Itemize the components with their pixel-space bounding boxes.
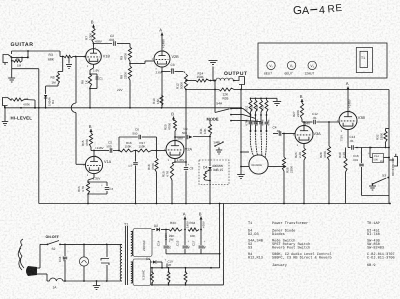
node — [210, 80, 215, 82]
ground — [8, 61, 15, 82]
wire ground link — [220, 204, 224, 269]
resistor bank R21-R24 — [249, 98, 269, 132]
label +94V — [305, 122, 311, 126]
resistor R34 10K — [188, 221, 199, 238]
wire — [209, 181, 211, 204]
capacitor C1 — [89, 73, 103, 88]
pilot lamp — [79, 244, 88, 281]
jack reverb out — [389, 154, 398, 166]
wire branch — [12, 68, 39, 70]
wire ground rail — [5, 107, 241, 109]
V1A cathode R16a — [77, 174, 100, 205]
node B — [199, 212, 206, 231]
wire C3 out — [162, 71, 171, 73]
resistor R3 68K — [64, 55, 73, 58]
wire — [282, 133, 295, 135]
transformer secondary 6.3VAC — [131, 259, 152, 286]
ground — [93, 281, 100, 290]
jack output contacts — [209, 78, 237, 81]
tube V2B — [152, 49, 170, 70]
tube V1B — [84, 47, 102, 68]
labels bank — [245, 105, 271, 126]
capacitor C17 40uf — [192, 230, 207, 254]
capacitor C4 .01 — [273, 126, 281, 136]
V3A cathode R26 — [294, 144, 306, 204]
wire — [89, 87, 91, 108]
resistor R8 220K — [120, 66, 132, 80]
resistor R25 220K — [282, 134, 293, 204]
capacitor C14a 20uf — [157, 230, 172, 254]
wire — [117, 80, 130, 108]
node A supply — [346, 81, 350, 95]
switch S4A — [214, 80, 232, 122]
capacitor C12 .01 — [304, 112, 318, 124]
wire bank top rail — [250, 98, 277, 100]
wire — [388, 90, 390, 148]
diode D4 limiter — [208, 160, 211, 181]
transformer secondary 230VAC — [131, 229, 153, 257]
label +148V — [348, 99, 352, 108]
node B supply — [171, 112, 175, 121]
wire — [20, 100, 36, 109]
wire — [91, 147, 95, 157]
label 2.6V — [156, 71, 163, 75]
tube socket V3 — [305, 61, 317, 75]
diode D2 — [154, 224, 168, 231]
label 1.6V — [93, 69, 100, 73]
wire — [11, 57, 13, 61]
wire plate to C2 — [93, 43, 112, 45]
wire — [11, 51, 29, 58]
wire — [75, 56, 86, 164]
wire — [174, 131, 176, 141]
label D4 400MW — [203, 164, 223, 172]
capacitor C5 500 — [107, 141, 113, 153]
parts list — [248, 221, 395, 268]
wire — [37, 244, 47, 268]
resistor R5 1M — [51, 73, 60, 85]
switch S2 ON-OFF — [46, 235, 61, 251]
ground — [369, 184, 376, 190]
capacitor C9 500uf — [175, 127, 193, 139]
wire — [362, 148, 390, 204]
resistor R20 470K — [164, 121, 177, 132]
wire reverb out line — [355, 147, 390, 149]
ground — [2, 106, 8, 126]
tube V2A — [164, 139, 184, 162]
capacitor C15 40uf — [176, 230, 191, 254]
transformer T1 primary — [120, 223, 128, 282]
wire reverb return — [241, 88, 389, 90]
label GUITAR — [11, 42, 34, 48]
capacitor C4a bypass — [88, 182, 114, 194]
tube socket V2 — [285, 61, 296, 75]
plug AC — [18, 239, 37, 276]
resistor R33 22K 5W — [169, 221, 182, 241]
resistor R18 470K — [147, 151, 158, 204]
tube V3A — [293, 124, 313, 147]
wire cathode — [174, 158, 184, 163]
wire grid V2B — [130, 61, 154, 64]
label REVERB OUT — [391, 157, 395, 176]
resistor R15 470K — [81, 133, 93, 147]
diode D1 — [146, 257, 173, 269]
resistor R16 150K — [120, 141, 135, 152]
label V2B — [172, 55, 180, 59]
wire — [240, 90, 249, 175]
heater V2 — [167, 268, 170, 285]
wire — [58, 56, 64, 73]
node hook V1A grid tap — [71, 103, 76, 113]
reverb tank — [249, 155, 268, 174]
capacitor C2 .001 — [109, 34, 116, 46]
wire — [117, 44, 130, 48]
wire C9 line — [193, 136, 211, 138]
wire left vertical — [38, 69, 40, 204]
node A supply — [159, 28, 163, 39]
chassis box — [258, 43, 387, 78]
node junction — [129, 61, 131, 66]
resistor R9 470K — [120, 47, 132, 61]
resistor R10 15K — [152, 95, 163, 106]
tube V1A — [83, 155, 102, 178]
resistor R2 470K — [11, 97, 30, 107]
wire — [268, 166, 285, 168]
wire cathode — [340, 130, 349, 148]
resistor R31 10K — [199, 120, 212, 137]
box limiter dashed — [199, 160, 229, 185]
transformer T1 core — [125, 226, 127, 285]
capacitor C14 500uf — [368, 147, 390, 163]
switch S3 — [372, 174, 390, 185]
wire — [90, 64, 94, 74]
resistor R35 12K — [219, 88, 234, 101]
wire B+ rail — [153, 229, 155, 231]
label V1B — [103, 55, 111, 59]
label +116V — [95, 146, 104, 150]
ground — [66, 57, 72, 69]
wire cathode — [161, 67, 163, 108]
node B supply — [300, 94, 304, 103]
resistor R19 4.7K — [162, 162, 176, 204]
resistor R27 220K — [292, 103, 304, 119]
capacitor C18 .047 — [58, 244, 67, 281]
resistor R7 100K — [85, 28, 96, 43]
ground output — [209, 61, 218, 81]
wire — [317, 121, 340, 123]
label V3B — [358, 116, 366, 120]
label 58V — [178, 137, 183, 141]
node — [165, 229, 169, 231]
wire — [166, 253, 221, 255]
wire — [347, 95, 349, 112]
tube socket V1 — [264, 61, 275, 75]
jack J2 hi-level input — [3, 98, 12, 109]
ground — [216, 150, 222, 154]
wire — [37, 274, 47, 281]
node — [134, 150, 137, 152]
node B supply — [89, 124, 93, 133]
capacitor C6 bridge — [119, 128, 157, 151]
label V3A — [314, 132, 322, 136]
resistor R14 150K — [196, 72, 209, 83]
resistor R1 1M — [12, 57, 23, 68]
zigzag in box — [204, 170, 210, 181]
resistor R17 150K — [137, 141, 152, 152]
jack output — [237, 77, 245, 89]
tube V3B — [337, 110, 357, 133]
wire heater bottom — [151, 268, 224, 286]
potentiometer R12 500K — [176, 74, 188, 90]
wire — [12, 50, 61, 56]
wire — [185, 89, 242, 162]
ground — [273, 98, 281, 105]
label +148V — [162, 38, 166, 48]
capacitor C13 .01 — [348, 135, 355, 150]
label HI-LEVEL — [11, 116, 33, 121]
switch S4B — [214, 141, 224, 151]
wire — [73, 56, 86, 58]
wire — [60, 244, 120, 246]
node B supply — [91, 20, 95, 29]
label +68V — [95, 40, 103, 44]
wire — [46, 84, 58, 94]
label V2A — [185, 148, 193, 152]
heater V3 — [184, 268, 187, 285]
jack J1 guitar input — [3, 55, 12, 66]
cable to reverb dashed — [250, 131, 266, 157]
resistor R28 470K — [319, 122, 331, 204]
node — [152, 150, 167, 152]
capacitor C8 — [175, 161, 194, 203]
capacitor C7 — [129, 151, 138, 204]
label MODE — [207, 117, 219, 122]
wire — [113, 150, 120, 152]
heater V1 — [151, 268, 154, 285]
capacitor line filter — [101, 244, 109, 281]
label 160V — [164, 233, 168, 240]
diode D4 1N34A — [44, 95, 55, 108]
wire wiper — [185, 80, 196, 82]
wire — [209, 137, 211, 161]
transformer T1 box — [356, 48, 372, 73]
wire heater rail — [151, 267, 220, 269]
wire grid — [60, 56, 64, 58]
wire plate line — [94, 150, 109, 152]
resistor R6 1K — [81, 74, 92, 87]
capacitor C16 .001 — [353, 148, 364, 196]
wire — [175, 71, 187, 74]
wire ground bus — [39, 203, 391, 205]
title GA-4RE — [293, 3, 343, 17]
capacitor C3 .01 — [170, 63, 175, 74]
wire — [63, 280, 122, 282]
resistor R32 150K — [376, 129, 390, 148]
node A — [183, 212, 190, 231]
wire mode fan — [231, 109, 261, 122]
wire — [161, 38, 163, 51]
label OUTPUT — [224, 71, 248, 77]
resistor R30 2.2K — [338, 148, 347, 204]
label V1A — [104, 160, 112, 164]
wire — [302, 119, 305, 126]
label R3 68K — [48, 53, 55, 62]
ground — [237, 175, 245, 179]
wire — [93, 43, 95, 49]
fuse 1A — [47, 278, 63, 290]
